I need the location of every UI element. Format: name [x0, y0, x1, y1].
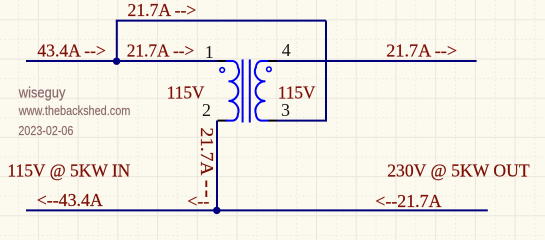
- svg-text:2023-02-06: 2023-02-06: [18, 124, 73, 138]
- wire: top bypass horizontal: [116, 20, 326, 22]
- svg-text:<--43.4A: <--43.4A: [37, 190, 103, 210]
- transformer T1 core line 2: [249, 60, 251, 123]
- wire: pin 2 vertical down: [216, 121, 218, 211]
- transformer T1 pin 1 stub: [218, 60, 227, 62]
- junction A dot: [113, 58, 120, 65]
- svg-text:43.4A -->: 43.4A -->: [37, 40, 106, 60]
- svg-text:230V @ 5KW OUT: 230V @ 5KW OUT: [387, 160, 529, 180]
- transformer T1 pin 2 stub: [218, 120, 228, 122]
- wire: vertical riser from junction A up: [116, 21, 118, 61]
- transformer T1 primary winding (left): [226, 61, 239, 121]
- transformer T1 secondary winding (right): [255, 61, 268, 121]
- transformer T1 core line 1: [242, 60, 244, 123]
- svg-text:wiseguy: wiseguy: [18, 86, 66, 102]
- wire: right vertical drop to pin 3 level: [325, 21, 327, 121]
- wire: pin 3 to right vertical: [277, 120, 328, 122]
- svg-text:www.thebackshed.com: www.thebackshed.com: [18, 103, 130, 118]
- transformer T1 pin 4 stub: [268, 60, 278, 62]
- svg-text:115V: 115V: [167, 82, 205, 102]
- wire: input hot from (26,61) to pin 1: [26, 60, 220, 62]
- svg-text:115V: 115V: [278, 82, 316, 102]
- svg-text:21.7A -->: 21.7A -->: [386, 41, 457, 61]
- svg-text:21.7A -->: 21.7A -->: [127, 41, 195, 61]
- svg-text:115V @ 5KW IN: 115V @ 5KW IN: [7, 161, 130, 181]
- svg-text:3: 3: [281, 100, 290, 120]
- svg-text:1: 1: [205, 42, 214, 62]
- svg-text:<--21.7A: <--21.7A: [375, 191, 441, 211]
- wire: bottom neutral rail: [26, 209, 488, 211]
- transformer T1 polarity dot pin4 side: [267, 67, 272, 72]
- svg-text:21.7A -->: 21.7A -->: [128, 0, 197, 20]
- svg-text:21.7A: 21.7A: [197, 128, 217, 176]
- svg-text:<--: <--: [187, 191, 209, 211]
- wire: pin 4 output to the right: [277, 60, 477, 62]
- svg-text:4: 4: [282, 40, 291, 60]
- junction B dot: [213, 207, 220, 214]
- transformer T1 polarity dot pin1 side: [220, 68, 225, 73]
- transformer T1 pin 3 stub: [268, 120, 277, 122]
- label vertical arrow shaft dashes on pin2 wire: [205, 181, 207, 199]
- svg-text:2: 2: [202, 100, 211, 120]
